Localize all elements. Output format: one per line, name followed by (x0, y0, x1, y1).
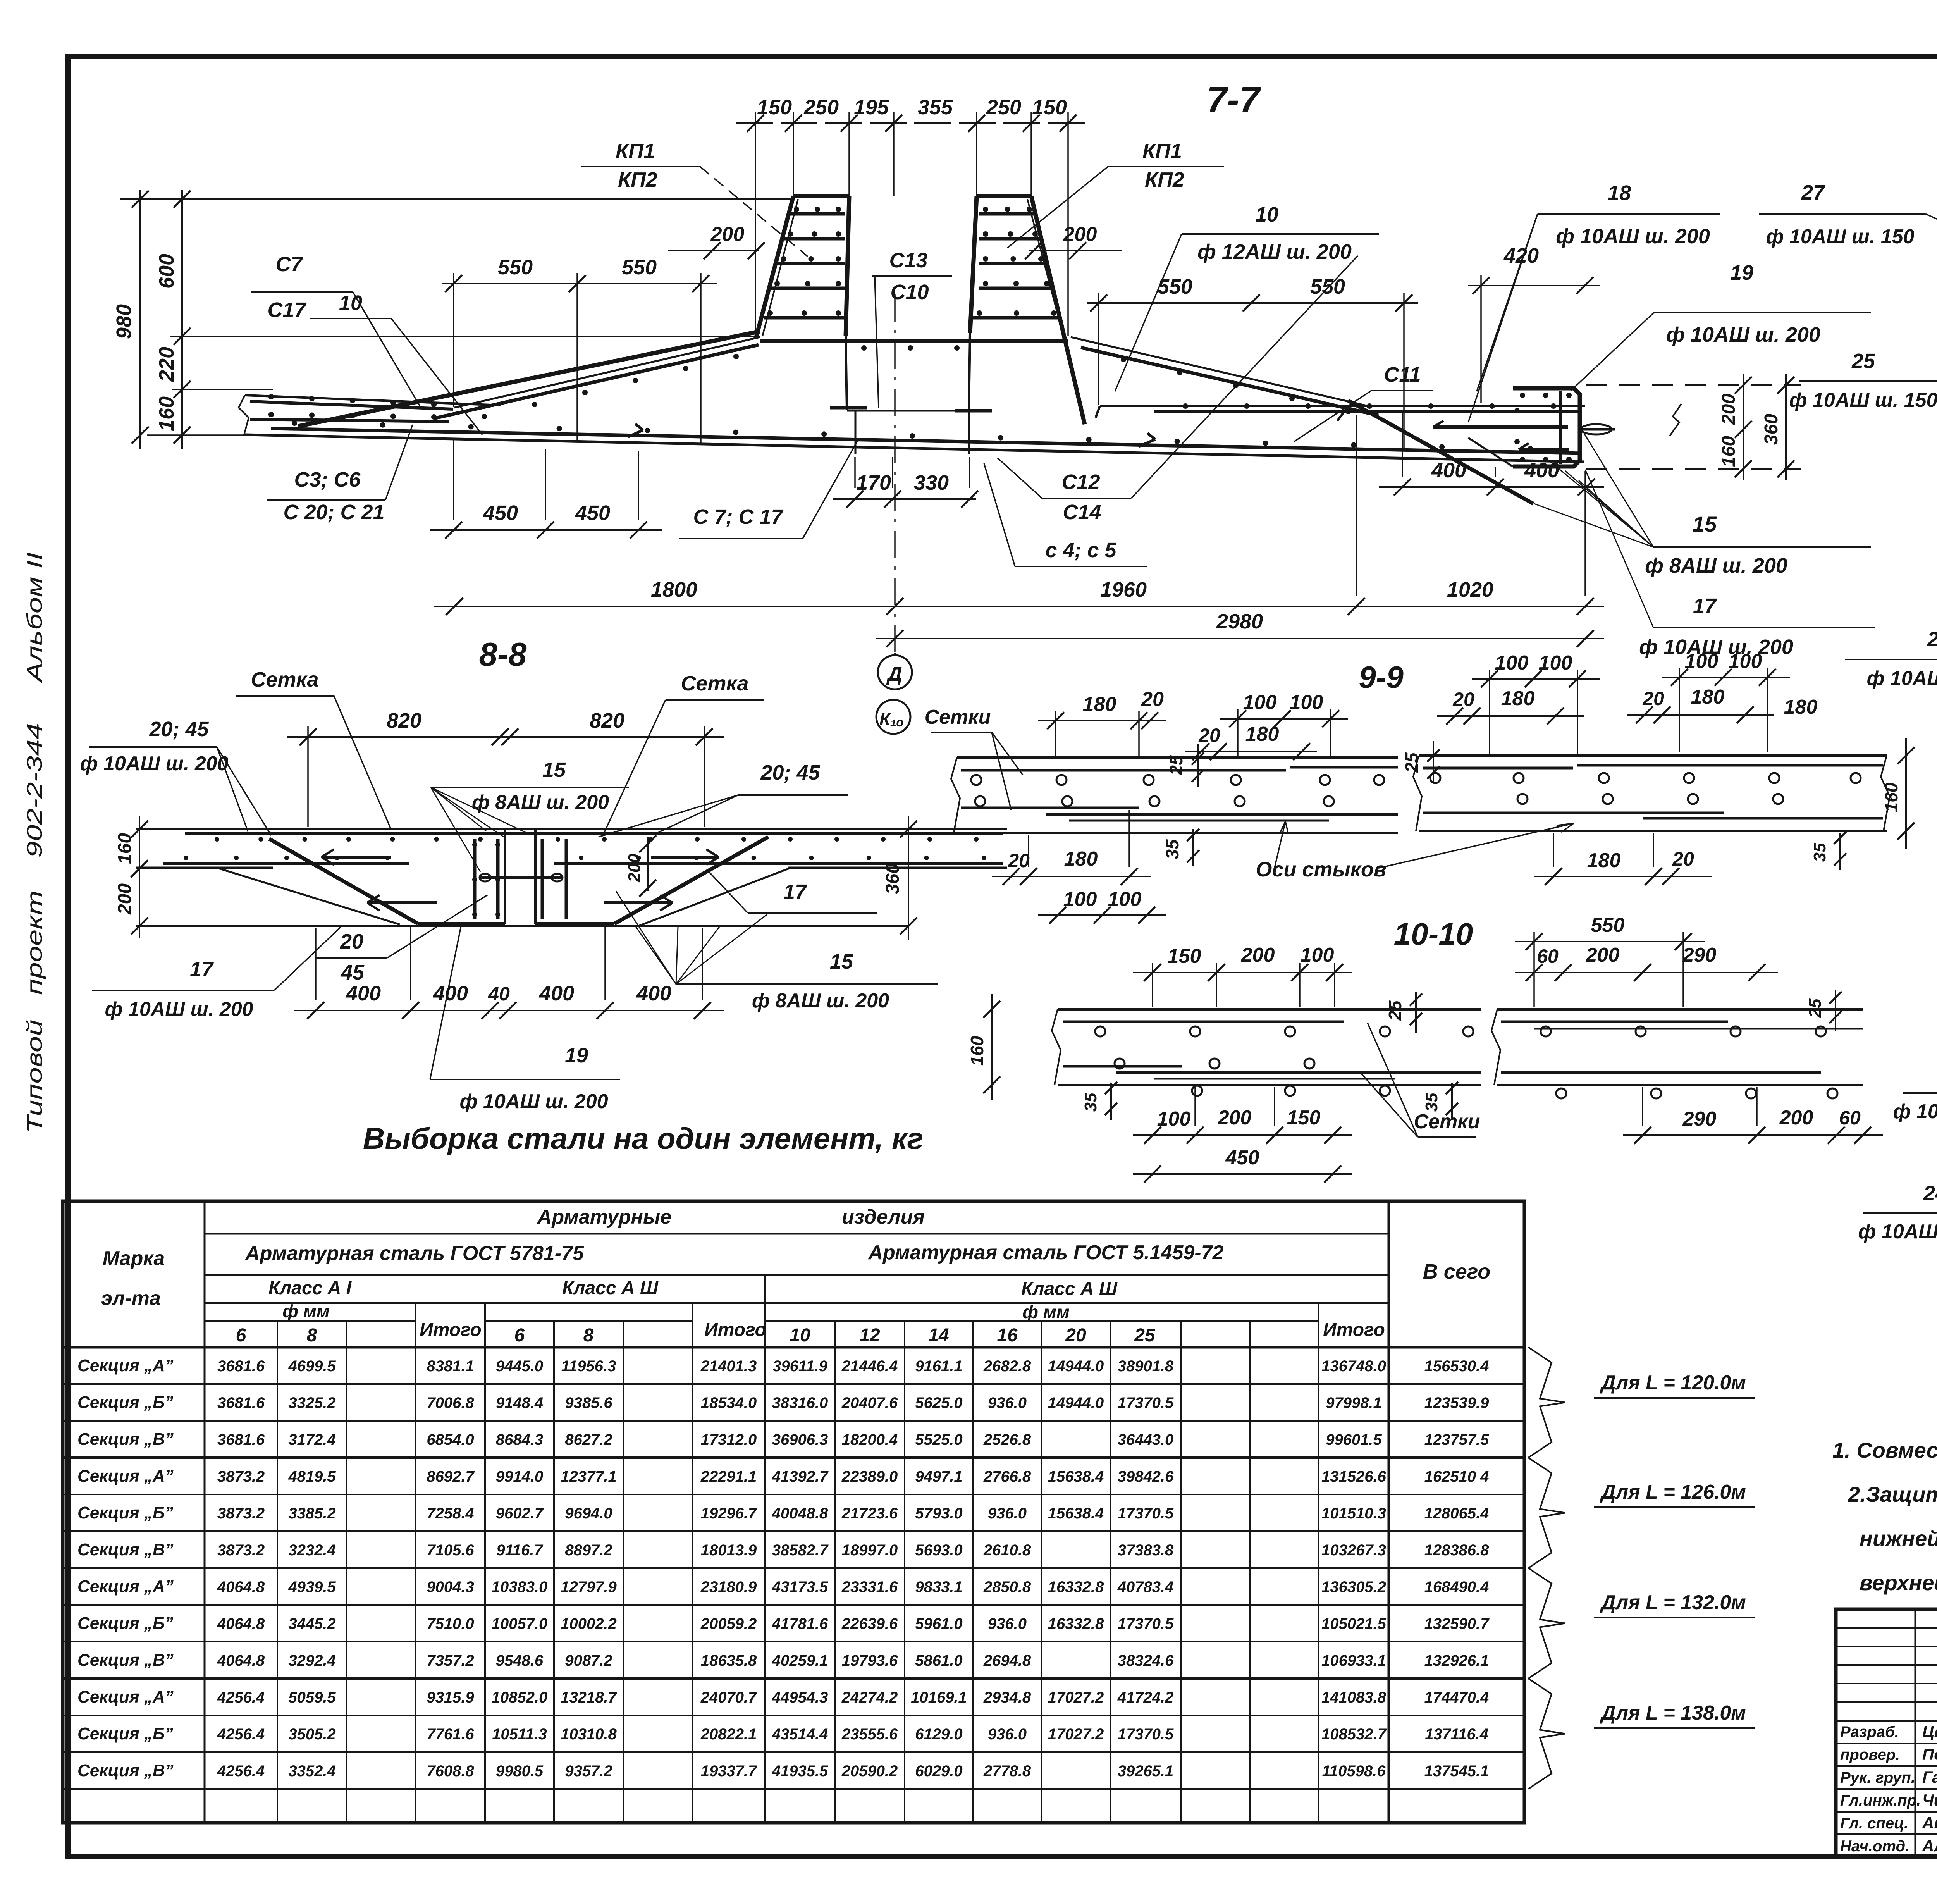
10-10 right piece outline (1497, 1008, 1863, 1011)
svg-text:4256.4: 4256.4 (217, 1689, 265, 1706)
svg-text:550: 550 (622, 256, 657, 279)
svg-text:24: 24 (1923, 1182, 1937, 1205)
7-7 left wall trapezoid (793, 194, 849, 198)
svg-text:162510 4: 162510 4 (1424, 1468, 1489, 1485)
svg-text:Цветкова: Цветкова (1922, 1722, 1937, 1740)
svg-text:108532.7: 108532.7 (1321, 1726, 1387, 1743)
svg-text:3172.4: 3172.4 (288, 1431, 335, 1448)
svg-text:Сетки: Сетки (925, 706, 991, 728)
svg-text:Выборка стали на один: Выборка стали на один элемент, кг (363, 1121, 923, 1155)
svg-text:3873.2: 3873.2 (217, 1468, 265, 1485)
7-7 right haunch mesh bar (1081, 348, 1378, 415)
svg-text:250: 250 (986, 96, 1021, 119)
svg-text:22291.1: 22291.1 (700, 1468, 757, 1485)
svg-text:ф 10АШ ш. 150: ф 10АШ ш. 150 (1858, 1221, 1937, 1243)
svg-text:21446.4: 21446.4 (841, 1358, 898, 1375)
svg-text:12: 12 (859, 1325, 880, 1346)
svg-text:10: 10 (339, 291, 362, 315)
svg-text:8381.1: 8381.1 (427, 1358, 474, 1375)
7-7 top dim extension lines (793, 112, 794, 196)
7-7 end block bottom slope (1468, 438, 1513, 467)
svg-text:3505.2: 3505.2 (288, 1726, 335, 1743)
svg-text:180: 180 (1784, 696, 1818, 718)
8-8 left lower mesh (163, 862, 409, 865)
svg-text:Оси стыков: Оси стыков (1256, 858, 1386, 881)
9-9 osi stykov arrows (1275, 821, 1285, 868)
svg-text:Класс А Ш: Класс А Ш (1021, 1279, 1118, 1299)
10-10 right piece mesh lines (1501, 1021, 1728, 1023)
svg-text:820: 820 (590, 709, 624, 732)
svg-text:3873.2: 3873.2 (217, 1542, 265, 1559)
svg-text:19793.6: 19793.6 (842, 1652, 898, 1669)
svg-text:180: 180 (1587, 849, 1621, 872)
svg-text:9385.6: 9385.6 (565, 1394, 612, 1412)
svg-text:35: 35 (1422, 1093, 1441, 1112)
svg-text:5793.0: 5793.0 (915, 1505, 962, 1522)
svg-text:В сего: В сего (1423, 1260, 1491, 1283)
svg-text:220: 220 (155, 347, 178, 382)
svg-text:3292.4: 3292.4 (288, 1652, 335, 1669)
8-8 hook arrows (322, 856, 391, 859)
svg-text:8692.7: 8692.7 (427, 1468, 475, 1485)
svg-text:43514.4: 43514.4 (772, 1726, 828, 1743)
svg-text:20: 20 (1198, 725, 1220, 746)
svg-text:200: 200 (1719, 394, 1739, 425)
svg-text:39611.9: 39611.9 (772, 1358, 827, 1375)
svg-text:2682.8: 2682.8 (983, 1358, 1031, 1375)
svg-text:2778.8: 2778.8 (983, 1763, 1031, 1780)
axis circle D (878, 655, 912, 689)
svg-text:38316.0: 38316.0 (772, 1394, 828, 1412)
8-8 profile top line (136, 828, 1007, 830)
svg-text:Рук. груп.: Рук. груп. (1840, 1769, 1915, 1786)
8-8 middle bottom right piece (535, 922, 614, 926)
7-7 right haunch top line (1071, 337, 1368, 406)
svg-text:С13: С13 (889, 249, 927, 272)
svg-text:290: 290 (1682, 944, 1717, 966)
svg-text:С10: С10 (890, 281, 929, 304)
svg-text:3352.4: 3352.4 (288, 1763, 335, 1780)
svg-text:8-8: 8-8 (479, 636, 527, 673)
svg-text:400: 400 (346, 982, 381, 1005)
svg-text:изделия: изделия (842, 1206, 925, 1228)
svg-text:5861.0: 5861.0 (915, 1652, 962, 1669)
svg-text:25: 25 (1402, 752, 1422, 773)
8-8 right slab bottom (788, 867, 1007, 869)
svg-text:6854.0: 6854.0 (427, 1431, 474, 1448)
svg-text:14: 14 (928, 1325, 949, 1346)
svg-text:Гл.инж.пр.: Гл.инж.пр. (1840, 1792, 1921, 1809)
9-9 right piece slab outline (1419, 754, 1887, 757)
svg-text:131526.6: 131526.6 (1321, 1468, 1387, 1485)
svg-text:Класс А Ш: Класс А Ш (562, 1278, 659, 1298)
svg-text:16332.8: 16332.8 (1048, 1615, 1104, 1632)
8-8 top mesh line (185, 832, 1003, 835)
svg-text:200: 200 (1779, 1107, 1813, 1129)
svg-text:9980.5: 9980.5 (496, 1763, 544, 1780)
7-7 end block cage (1513, 388, 1580, 467)
svg-text:100: 100 (1290, 691, 1323, 714)
svg-text:15638.4: 15638.4 (1048, 1505, 1104, 1522)
svg-text:3873.2: 3873.2 (217, 1505, 265, 1522)
svg-text:20: 20 (1672, 848, 1694, 870)
svg-text:КП1: КП1 (616, 139, 655, 163)
8-8 joint water-stop symbol (480, 876, 562, 879)
7-7 right wall 200 dim (1029, 250, 1122, 251)
7-7 reference line at 220 level (170, 336, 760, 337)
svg-text:16332.8: 16332.8 (1048, 1579, 1104, 1596)
svg-text:1. Совместно с данным см.: 1. Совместно с данным см. л.л. КЖ- 21 ÷ … (1832, 1438, 1937, 1462)
7-7 right 550+550 dim (1087, 302, 1418, 304)
svg-text:18200.4: 18200.4 (842, 1431, 898, 1448)
9-9 dims 20/180 right piece right (1627, 714, 1774, 716)
svg-text:41724.2: 41724.2 (1117, 1689, 1174, 1706)
10-10 dim 550 (1515, 941, 1705, 942)
svg-text:200: 200 (1063, 223, 1097, 246)
svg-text:ф 10АШ ш. 200: ф 10АШ ш. 200 (80, 752, 228, 775)
8-8 joint verticals (504, 829, 506, 924)
svg-text:17: 17 (1693, 594, 1717, 618)
9-9 dims 20/180 mid (1185, 751, 1317, 752)
svg-text:10169.1: 10169.1 (911, 1689, 967, 1706)
7-7 left vertical dim 980 line (139, 190, 141, 449)
svg-text:44954.3: 44954.3 (772, 1689, 828, 1706)
7-7 bottom dim 2980 (876, 638, 1604, 639)
steel table outer frame (63, 1201, 1524, 1823)
svg-text:С11: С11 (1384, 363, 1421, 386)
svg-text:ф мм: ф мм (1022, 1302, 1070, 1322)
svg-text:450: 450 (1225, 1147, 1259, 1169)
10-10 right piece rings (1541, 1026, 1551, 1036)
7-7 bottom slab lower mesh (271, 429, 1581, 453)
svg-text:9148.4: 9148.4 (496, 1394, 543, 1412)
svg-text:550: 550 (1591, 914, 1625, 937)
svg-text:360: 360 (882, 863, 903, 894)
svg-text:9004.3: 9004.3 (427, 1579, 474, 1596)
svg-text:200: 200 (710, 223, 745, 246)
svg-text:24274.2: 24274.2 (841, 1689, 898, 1706)
svg-text:10: 10 (1255, 203, 1278, 226)
svg-text:4256.4: 4256.4 (217, 1726, 265, 1743)
svg-text:9357.2: 9357.2 (565, 1763, 612, 1780)
svg-text:7258.4: 7258.4 (427, 1505, 474, 1522)
7-7 reference line at 160 level (172, 389, 273, 390)
svg-text:ф 10АШ ш. 150: ф 10АШ ш. 150 (1766, 226, 1914, 248)
svg-text:20: 20 (1065, 1325, 1086, 1346)
svg-text:100: 100 (1301, 944, 1334, 966)
svg-text:Гл. спец.: Гл. спец. (1840, 1815, 1908, 1832)
svg-text:6129.0: 6129.0 (915, 1726, 962, 1743)
svg-text:1800: 1800 (651, 578, 697, 601)
10-10 dim 35 right (1451, 1083, 1453, 1120)
svg-text:19337.7: 19337.7 (701, 1763, 757, 1780)
svg-text:40: 40 (488, 983, 510, 1005)
9-9 right piece bar rings (1430, 773, 1440, 783)
svg-text:Для L = 126.0м: Для L = 126.0м (1600, 1481, 1746, 1503)
svg-text:9315.9: 9315.9 (427, 1689, 474, 1706)
svg-text:200: 200 (1241, 944, 1275, 966)
svg-text:38582.7: 38582.7 (772, 1542, 829, 1559)
svg-text:41935.5: 41935.5 (772, 1763, 828, 1780)
svg-text:150: 150 (1168, 945, 1201, 967)
svg-text:7-7: 7-7 (1206, 79, 1261, 121)
svg-text:ф 10АШ ш. 150: ф 10АШ ш. 150 (1893, 1100, 1937, 1123)
svg-text:КП2: КП2 (1145, 168, 1184, 191)
svg-text:936.0: 936.0 (988, 1394, 1027, 1412)
svg-text:123539.9: 123539.9 (1424, 1394, 1490, 1412)
svg-text:Арматурная сталь ГОСТ 5: Арматурная сталь ГОСТ 5.1459-72 (867, 1241, 1223, 1264)
svg-text:Арматурные: Арматурные (537, 1206, 671, 1228)
steel table vertical split AI/AIII (764, 1275, 766, 1303)
svg-text:60: 60 (1839, 1107, 1861, 1129)
svg-text:25: 25 (1806, 998, 1825, 1018)
svg-text:17370.5: 17370.5 (1118, 1394, 1174, 1412)
svg-text:180: 180 (1083, 693, 1116, 716)
svg-text:10-10: 10-10 (1394, 917, 1473, 951)
7-7 end vertical dims 200/160 (1743, 374, 1744, 480)
svg-text:18534.0: 18534.0 (701, 1394, 757, 1412)
svg-text:20059.2: 20059.2 (700, 1615, 757, 1632)
10-10 dims below 100/200/150 (1133, 1134, 1352, 1136)
7-7 bottom dims 1800/1960/1020 (434, 606, 1604, 607)
svg-text:330: 330 (914, 471, 949, 494)
svg-text:400: 400 (1524, 459, 1559, 482)
svg-text:Гарбуз: Гарбуз (1922, 1768, 1937, 1786)
svg-text:23331.6: 23331.6 (841, 1579, 898, 1596)
7-7 left slab top line (245, 395, 501, 405)
svg-text:21723.6: 21723.6 (841, 1505, 898, 1522)
svg-text:17: 17 (190, 958, 214, 981)
svg-text:3681.6: 3681.6 (217, 1394, 265, 1412)
7-7 dashed continuation top (1586, 384, 1801, 386)
svg-text:ф 10АШ ш. 150: ф 10АШ ш. 150 (1789, 389, 1937, 411)
svg-text:5525.0: 5525.0 (915, 1431, 962, 1448)
svg-text:ф 10АШ ш. 200: ф 10АШ ш. 200 (1666, 323, 1820, 346)
svg-text:9497.1: 9497.1 (915, 1468, 962, 1485)
svg-text:Секция „Б”: Секция „Б” (77, 1724, 173, 1743)
svg-text:27: 27 (1801, 181, 1826, 204)
steel table column lines (204, 1201, 206, 1823)
svg-text:355: 355 (918, 96, 953, 119)
svg-text:5961.0: 5961.0 (915, 1615, 962, 1632)
svg-text:195: 195 (854, 96, 889, 119)
svg-text:41781.6: 41781.6 (772, 1615, 828, 1632)
svg-text:105021.5: 105021.5 (1321, 1615, 1387, 1632)
9-9 dims 100/100 lower (1038, 914, 1166, 916)
svg-text:936.0: 936.0 (988, 1726, 1027, 1743)
svg-text:15: 15 (830, 950, 853, 973)
svg-text:ф 12АШ ш. 200: ф 12АШ ш. 200 (1197, 240, 1352, 263)
svg-text:168490.4: 168490.4 (1424, 1579, 1489, 1596)
svg-text:С3; С6: С3; С6 (294, 468, 361, 491)
svg-text:20; 45: 20; 45 (760, 761, 820, 784)
svg-text:200: 200 (1586, 944, 1620, 966)
steel table data row lines (63, 1383, 1524, 1385)
8-8 left slab bottom (136, 867, 273, 869)
7-7 steep bar to end block (1348, 401, 1533, 504)
svg-text:эл-та: эл-та (101, 1287, 161, 1310)
title block signature columns (1915, 1609, 1916, 1857)
10-10 left piece rings (1095, 1026, 1105, 1036)
8-8 inner 200 dim (647, 837, 649, 891)
svg-text:верхней арматуры - 25 мм: верхней арматуры - 25 мм (1860, 1570, 1937, 1595)
8-8 bottom reference line (136, 925, 908, 927)
svg-text:7006.8: 7006.8 (427, 1394, 474, 1412)
9-9 dims above left piece: 180/20 (1038, 720, 1166, 721)
7-7 top dimension line 150-250-195-355-250-150 (736, 122, 1089, 124)
svg-text:Сетка: Сетка (251, 668, 318, 691)
svg-text:18: 18 (1608, 181, 1631, 205)
8-8 820 dims (287, 736, 724, 738)
7-7 left 550+550 dim (442, 283, 717, 284)
svg-text:15: 15 (542, 758, 566, 782)
svg-text:ф мм: ф мм (282, 1301, 330, 1321)
7-7 channel floor between walls (847, 410, 969, 412)
svg-text:100: 100 (1685, 650, 1719, 673)
svg-text:С17: С17 (267, 298, 307, 322)
svg-text:101510.3: 101510.3 (1321, 1505, 1386, 1522)
svg-text:20: 20 (1642, 688, 1664, 709)
svg-text:20: 20 (1141, 688, 1164, 711)
svg-text:4699.5: 4699.5 (288, 1358, 336, 1375)
7-7 left slab upper mesh (250, 401, 453, 409)
svg-text:136748.0: 136748.0 (1321, 1358, 1386, 1375)
8-8 middle bottom left piece (418, 922, 505, 926)
svg-text:9445.0: 9445.0 (496, 1358, 543, 1375)
svg-text:600: 600 (155, 254, 178, 289)
8-8 left vertical dims 160/200 (139, 816, 140, 938)
svg-text:36906.3: 36906.3 (772, 1431, 828, 1448)
svg-text:150: 150 (1032, 96, 1067, 119)
7-7 left haunch mesh bar with dots (434, 345, 759, 418)
svg-text:Итого: Итого (704, 1320, 766, 1340)
svg-text:15638.4: 15638.4 (1048, 1468, 1104, 1485)
svg-text:ф 8АШ ш. 200: ф 8АШ ш. 200 (752, 990, 889, 1012)
svg-text:360: 360 (1761, 414, 1782, 445)
svg-text:39265.1: 39265.1 (1118, 1763, 1174, 1780)
svg-text:19: 19 (565, 1044, 588, 1067)
svg-text:400: 400 (433, 982, 468, 1005)
9-9 left piece bar rings (971, 775, 981, 785)
svg-text:С 7; С 17: С 7; С 17 (693, 505, 784, 529)
svg-text:10511.3: 10511.3 (492, 1726, 547, 1743)
svg-text:17: 17 (783, 880, 808, 904)
svg-text:420: 420 (1503, 244, 1539, 267)
svg-text:100: 100 (1243, 691, 1277, 714)
svg-text:10: 10 (790, 1325, 810, 1346)
7-7 wall-top reference line (120, 198, 794, 200)
svg-text:97998.1: 97998.1 (1326, 1394, 1382, 1412)
svg-text:Для L = 138.0м: Для L = 138.0м (1600, 1702, 1746, 1724)
svg-text:12377.1: 12377.1 (561, 1468, 617, 1485)
svg-text:100: 100 (1157, 1108, 1191, 1130)
7-7 wall base mesh line (760, 339, 1068, 343)
svg-text:Марка: Марка (103, 1247, 165, 1270)
svg-text:КП2: КП2 (618, 168, 657, 191)
svg-text:6: 6 (236, 1325, 246, 1346)
svg-text:160: 160 (155, 396, 178, 431)
svg-text:КП1: КП1 (1142, 139, 1182, 163)
svg-text:200: 200 (625, 854, 644, 883)
svg-text:10057.0: 10057.0 (492, 1615, 548, 1632)
svg-text:9116.7: 9116.7 (496, 1542, 543, 1559)
svg-text:106933.1: 106933.1 (1321, 1652, 1386, 1669)
svg-text:936.0: 936.0 (988, 1505, 1027, 1522)
10-10 dim 25 rotated (1415, 992, 1417, 1033)
svg-text:60: 60 (1537, 945, 1559, 967)
svg-text:40259.1: 40259.1 (772, 1652, 828, 1669)
svg-text:40783.4: 40783.4 (1117, 1579, 1174, 1596)
8-8 right vertical dim 360 (908, 816, 909, 940)
10-10 dim 35 left (1110, 1083, 1112, 1120)
svg-text:7761.6: 7761.6 (427, 1726, 474, 1743)
svg-text:3385.2: 3385.2 (288, 1505, 335, 1522)
svg-text:17027.2: 17027.2 (1048, 1689, 1104, 1706)
svg-text:Арматурная сталь ГОСТ 5781: Арматурная сталь ГОСТ 5781-75 (244, 1242, 584, 1265)
svg-text:7510.0: 7510.0 (427, 1615, 474, 1632)
svg-text:8627.2: 8627.2 (565, 1431, 612, 1448)
svg-text:ф 10АШ ш. 150: ф 10АШ ш. 150 (1866, 667, 1937, 690)
svg-text:ф 8АШ ш. 200: ф 8АШ ш. 200 (472, 791, 609, 814)
svg-text:160: 160 (115, 833, 135, 864)
8-8 right haunch slopes (614, 837, 768, 924)
7-7 dashed continuation bottom (1586, 468, 1801, 470)
svg-text:С7: С7 (275, 253, 303, 276)
svg-text:128065.4: 128065.4 (1424, 1505, 1489, 1522)
9-9 dim 25 right piece (1433, 741, 1434, 783)
9-9 left piece mesh lines (961, 769, 1286, 772)
svg-text:4064.8: 4064.8 (217, 1615, 265, 1632)
table brackets for L groups (1528, 1347, 1565, 1458)
10-10 left vertical dim 160 (991, 994, 993, 1100)
9-9 dims above right piece 100/100 right cluster (1662, 677, 1790, 678)
axis circle K1 (876, 700, 910, 734)
svg-text:20407.6: 20407.6 (841, 1394, 898, 1412)
7-7 hooks on lower mesh (628, 430, 643, 437)
svg-text:17027.2: 17027.2 (1048, 1726, 1104, 1743)
svg-text:45: 45 (341, 961, 365, 984)
svg-text:400: 400 (636, 982, 671, 1005)
svg-text:25: 25 (1134, 1325, 1156, 1346)
7-7 centre axis line (894, 294, 896, 653)
svg-text:2526.8: 2526.8 (983, 1431, 1031, 1448)
8-8 cage bars right of joint (541, 839, 544, 919)
svg-text:23555.6: 23555.6 (841, 1726, 898, 1743)
svg-text:7105.6: 7105.6 (427, 1542, 474, 1559)
svg-text:Секция „А”: Секция „А” (77, 1577, 174, 1596)
svg-text:2766.8: 2766.8 (983, 1468, 1031, 1485)
8-8 right lower mesh (554, 862, 1003, 865)
svg-text:137545.1: 137545.1 (1424, 1763, 1489, 1780)
8-8 bottom dims 400 400 40 400 400 (294, 1010, 724, 1011)
svg-text:Д: Д (886, 663, 902, 685)
svg-text:9-9: 9-9 (1359, 660, 1404, 694)
9-9 left piece slab outline (957, 756, 1398, 759)
7-7 left slab lower mesh (250, 419, 449, 422)
svg-text:С 20; С 21: С 20; С 21 (283, 501, 384, 524)
svg-text:290: 290 (1682, 1108, 1717, 1130)
svg-text:Чирков: Чирков (1922, 1791, 1937, 1809)
svg-text:137116.4: 137116.4 (1425, 1726, 1488, 1743)
10-10 right 25 dim (1835, 990, 1836, 1031)
svg-text:ф 8АШ ш. 200: ф 8АШ ш. 200 (1645, 554, 1787, 577)
7-7 right wall trapezoid (977, 194, 1031, 198)
svg-text:17370.5: 17370.5 (1118, 1505, 1174, 1522)
7-7 left wall ladder rungs (790, 212, 845, 216)
svg-text:5693.0: 5693.0 (915, 1542, 962, 1559)
svg-text:20822.1: 20822.1 (700, 1726, 757, 1743)
svg-text:1020: 1020 (1447, 578, 1493, 601)
